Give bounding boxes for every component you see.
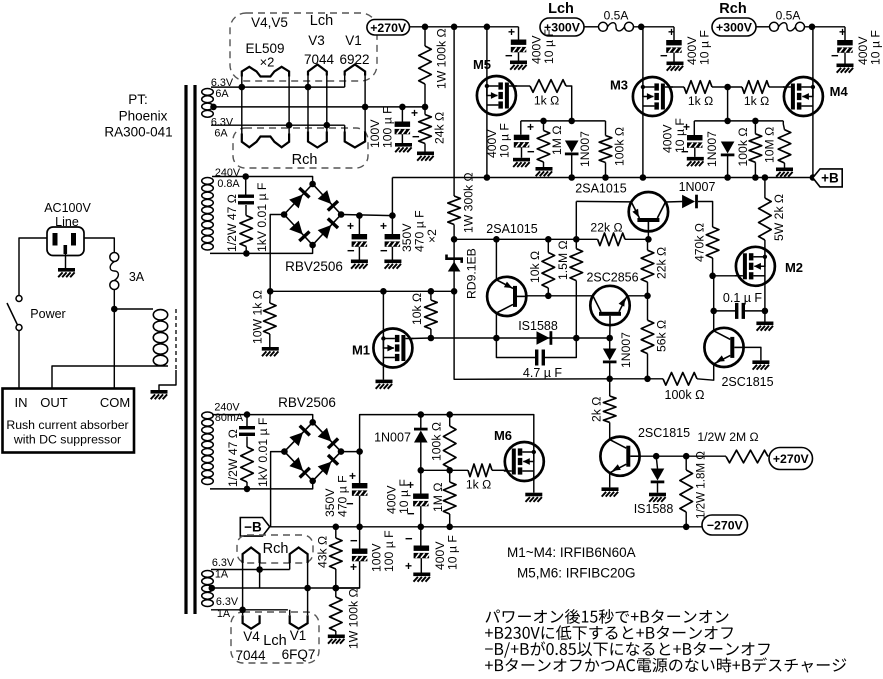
ground M1 xyxy=(376,380,393,389)
wire Rch fuse lead2 xyxy=(804,26,845,28)
capacitor 400V 10uF t1 xyxy=(511,40,527,53)
label +300V Lch xyxy=(540,18,584,36)
bridge RBV2506 +B xyxy=(281,181,345,249)
svg-text:1A: 1A xyxy=(217,608,231,620)
wire cap470b gnd xyxy=(391,247,393,260)
wire snubber mid xyxy=(245,205,247,216)
svg-text:0.8A: 0.8A xyxy=(217,178,240,190)
wire Lch fuse lead1 xyxy=(584,26,599,28)
junction rail M4s xyxy=(810,174,817,181)
ground shield xyxy=(151,390,168,399)
junction heater5 xyxy=(286,122,293,129)
wire 470k bot xyxy=(712,258,714,276)
wire cape lead xyxy=(420,527,422,546)
resistor 43kOhm xyxy=(330,538,343,569)
svg-text:6FQ7: 6FQ7 xyxy=(282,647,316,662)
capacitor 400V 10uF M3 xyxy=(687,135,703,148)
wire primary bottom xyxy=(52,366,168,391)
svg-text:1k Ω: 1k Ω xyxy=(466,478,491,492)
transistor 2SC1815 Q5 xyxy=(600,437,639,476)
junction cap470 a xyxy=(356,212,363,219)
heater V4Rch upper xyxy=(243,548,260,564)
svg-text:RD9.1EB: RD9.1EB xyxy=(464,248,478,299)
capacitor 400V 10uF t2 xyxy=(666,40,682,53)
diode 1N007 M3 xyxy=(721,142,735,157)
wire Q5 emitter xyxy=(609,473,611,488)
svg-text:1A: 1A xyxy=(215,569,229,581)
wire cape lead2 xyxy=(420,558,422,572)
wire heater b line2 xyxy=(212,587,360,589)
wire switch to IN xyxy=(18,331,20,392)
diode 1N007 mid xyxy=(603,349,617,364)
capacitor 350V 470uF c xyxy=(352,483,368,496)
junction 300k line top xyxy=(451,24,458,31)
transistor 2SA1015 Q2 xyxy=(629,192,668,231)
capacitor 1kV 0.01uF xyxy=(238,195,254,205)
label +300V Rch xyxy=(712,18,756,36)
resistor 1W 300kOhm xyxy=(448,196,461,225)
wire Q1 emitter xyxy=(495,239,497,280)
svg-text:1W 100k Ω: 1W 100k Ω xyxy=(346,588,360,649)
svg-text:V4,V5: V4,V5 xyxy=(251,15,288,30)
wire 10M gnd lead xyxy=(784,163,786,168)
ground M6 xyxy=(525,493,542,502)
svg-text:−: − xyxy=(831,48,839,63)
junction gates mid xyxy=(724,84,731,91)
svg-text:1N007: 1N007 xyxy=(705,131,719,167)
MOSFET M6 xyxy=(504,442,544,481)
wire M3 gate lead xyxy=(670,86,684,88)
wire cap t1 lead xyxy=(518,27,520,40)
wire fuse to junction xyxy=(113,289,115,391)
wire +B riser xyxy=(391,178,393,216)
svg-text:1k Ω: 1k Ω xyxy=(688,94,713,108)
svg-text:M2: M2 xyxy=(785,260,803,275)
junction M5 drain top xyxy=(484,24,491,31)
junction -B plus xyxy=(356,448,363,455)
wire 1.8M bot xyxy=(685,512,687,527)
label +270V xyxy=(367,20,410,36)
junction 2k top xyxy=(606,376,613,383)
junction heater2 xyxy=(305,84,312,91)
wire cap t1 gnd xyxy=(518,52,520,60)
ground 24k xyxy=(417,152,434,161)
wire 43k bot xyxy=(335,569,337,588)
junction Q3-22k xyxy=(644,293,651,300)
wire 1N007 mid leads xyxy=(609,338,611,349)
junction cap 100uF xyxy=(399,104,406,111)
svg-text:3A: 3A xyxy=(129,270,145,284)
wire M3 source xyxy=(642,116,644,178)
svg-text:1kV 0.01 µ F: 1kV 0.01 µ F xyxy=(256,418,270,487)
transformer core lines xyxy=(186,85,195,614)
ground Q5 xyxy=(602,487,619,496)
heater leg f xyxy=(364,75,366,136)
wire heater line3 xyxy=(211,124,345,126)
svg-text:+: + xyxy=(508,25,515,39)
wire -B bridge right out xyxy=(341,451,360,453)
svg-text:2SA1015: 2SA1015 xyxy=(575,182,626,196)
svg-text:2SC1815: 2SC1815 xyxy=(638,426,690,440)
svg-text:−: − xyxy=(660,48,668,63)
ground M2 xyxy=(756,322,773,331)
heater V3 lower Rch xyxy=(308,132,327,148)
wire 100k-24k link xyxy=(424,84,426,107)
wire M5 drain xyxy=(486,27,488,76)
wire 1.8M top xyxy=(685,456,687,470)
junction node M3-100k xyxy=(752,118,759,125)
wire heater line2 xyxy=(214,106,426,108)
svg-text:10 µ F: 10 µ F xyxy=(542,29,556,64)
wire M4 source xyxy=(812,116,814,178)
wire 10kM1 top xyxy=(430,291,432,300)
svg-text:0.1 µ F: 0.1 µ F xyxy=(723,291,763,305)
svg-text:Rch: Rch xyxy=(719,1,746,17)
junction gate line b xyxy=(446,467,453,474)
ground cap M5 xyxy=(513,158,530,167)
wire cap M5 gnd xyxy=(521,148,523,158)
junction n239 d xyxy=(645,236,652,243)
svg-text:Rch: Rch xyxy=(263,541,289,557)
wire -B snubber mid xyxy=(246,437,248,448)
svg-text:M5,M6: IRFIBC20G: M5,M6: IRFIBC20G xyxy=(517,566,636,581)
wire 1N007b leads xyxy=(420,415,422,429)
wire 100k2 gnd xyxy=(335,631,337,635)
svg-text:IS1588: IS1588 xyxy=(518,319,558,333)
resistor 22kOhm v xyxy=(641,250,654,282)
svg-text:+: + xyxy=(347,219,354,233)
svg-text:×2: ×2 xyxy=(425,229,439,243)
wire heater line1 xyxy=(211,86,345,88)
wire cap M3 gnd xyxy=(694,148,696,157)
wire snubber xyxy=(245,177,247,196)
wire cap 100uF gnd lead xyxy=(401,134,403,143)
svg-text:OUT: OUT xyxy=(40,395,68,410)
wire gate line xyxy=(421,469,468,471)
wire Q5 base line xyxy=(640,455,726,457)
heater b leg d xyxy=(307,563,309,615)
svg-text:−: − xyxy=(505,48,513,63)
junction rail cap100 xyxy=(356,524,363,531)
svg-text:×2: ×2 xyxy=(260,55,275,70)
svg-text:43k Ω: 43k Ω xyxy=(315,536,329,568)
heater V1 upper xyxy=(345,65,365,76)
wire 100kb top lead xyxy=(449,415,451,426)
wire 5W2k bot xyxy=(764,240,766,247)
svg-text:80mA: 80mA xyxy=(215,412,244,424)
wire 100k M3 top lead xyxy=(754,121,756,134)
svg-text:M3: M3 xyxy=(610,78,628,93)
wire M5 node line xyxy=(521,120,606,122)
transistor 2SC2856 Q3 xyxy=(590,286,629,325)
junction gate line a xyxy=(418,467,425,474)
wire 10k mid bot xyxy=(547,288,549,296)
wire 100k2 leads xyxy=(335,588,337,597)
svg-text:Lch: Lch xyxy=(548,1,574,17)
junction 100kb top xyxy=(446,411,453,418)
AC plug P1 xyxy=(47,227,84,256)
wire cap t3 gnd xyxy=(844,53,846,64)
heater winding 6.3V top xyxy=(202,89,214,118)
wire 1N007 mid lead2 xyxy=(609,363,611,379)
svg-text:2SC1815: 2SC1815 xyxy=(721,375,773,389)
svg-text:IS1588: IS1588 xyxy=(634,502,674,516)
svg-text:+: + xyxy=(405,559,412,573)
diode 1N007 q2 xyxy=(682,195,698,209)
capacitor 100V 100uF -B xyxy=(352,549,368,562)
wire capd lead xyxy=(420,470,422,493)
wire Q1 base line xyxy=(526,295,593,297)
wire plug ground lead xyxy=(65,254,67,268)
svg-text:100k Ω: 100k Ω xyxy=(612,127,626,166)
wire +270V rail xyxy=(410,26,519,28)
diode 1N007 M5 xyxy=(565,141,579,156)
resistor 1kOhm M4 xyxy=(742,81,769,94)
heater V3 upper xyxy=(308,65,327,76)
wire 1k M3 to mid xyxy=(712,86,742,88)
svg-text:1N007: 1N007 xyxy=(374,431,411,445)
svg-text:V1: V1 xyxy=(290,628,307,643)
svg-text:Power: Power xyxy=(30,307,65,321)
wire 10kM1 bot xyxy=(430,329,432,338)
wire IS1588 low lead xyxy=(656,456,657,468)
label +270V low xyxy=(769,448,813,470)
junction 43k-100k xyxy=(333,585,340,592)
wire 2k bot xyxy=(609,422,611,440)
resistor 100kOhm M3 xyxy=(749,134,762,163)
wire M2 gate xyxy=(713,275,737,277)
junction base-1.8M xyxy=(683,453,690,460)
resistor 1kOhm M3 xyxy=(684,81,712,94)
primary winding xyxy=(153,310,167,366)
wire IS1588 low lead2 xyxy=(657,483,659,493)
ground cap470a xyxy=(351,260,368,269)
svg-text:6A: 6A xyxy=(215,88,229,100)
resistor 1W 100kOhm xyxy=(419,46,432,84)
ground 10M xyxy=(776,168,793,177)
wire -B bridge left out xyxy=(271,452,285,527)
heater leg e2 xyxy=(344,125,346,136)
resistor 10kOhm M1 xyxy=(425,300,438,329)
wire 1N007 M3 lead xyxy=(727,156,729,178)
svg-text:−: − xyxy=(350,533,358,548)
junction 1.8M rail xyxy=(683,524,690,531)
junction n239 c xyxy=(573,236,580,243)
wire M5 source xyxy=(486,115,488,178)
wire diode to 470k xyxy=(698,202,713,228)
diode 1N007 -B xyxy=(414,428,428,443)
svg-text:1k Ω: 1k Ω xyxy=(534,94,559,108)
junction node M5-d xyxy=(568,118,575,125)
resistor 1MOhm -B xyxy=(443,482,456,514)
wire 0.1uF line a xyxy=(714,310,736,312)
resistor 1MOhm M5 xyxy=(537,131,550,163)
svg-text:10 µ F: 10 µ F xyxy=(673,118,687,153)
svg-text:10W 1k Ω: 10W 1k Ω xyxy=(250,290,264,344)
junction 56k-100k xyxy=(644,376,651,383)
wire 1M gnd lead xyxy=(543,162,545,167)
svg-text:PT:: PT: xyxy=(128,92,148,107)
wire 100k line xyxy=(610,378,663,380)
winding 6.3V 1A xyxy=(202,571,214,607)
junction hb3 xyxy=(333,585,340,592)
junction hb coil xyxy=(209,585,216,592)
fuse 0.5A Rch xyxy=(770,22,805,31)
wire cap t2 gnd xyxy=(673,53,675,62)
ground IS1588 low xyxy=(649,493,666,502)
svg-text:IN: IN xyxy=(15,395,28,410)
svg-text:Phoenix: Phoenix xyxy=(119,109,168,124)
heater b leg a xyxy=(242,563,244,615)
junction M2gate-q4 xyxy=(710,308,717,315)
wire Q2 base down xyxy=(647,231,649,239)
heater leg a xyxy=(241,75,243,136)
junction hb1 xyxy=(256,566,263,573)
ground cap t3 xyxy=(837,64,854,73)
svg-text:RBV2506: RBV2506 xyxy=(278,395,336,410)
ground 1W100k xyxy=(328,635,345,644)
wire snubber bot lead xyxy=(245,247,247,254)
resistor 1W 100kOhm b xyxy=(330,597,343,631)
junction rail M5s xyxy=(484,174,491,181)
svg-text:V4: V4 xyxy=(243,629,260,644)
junction Lch rail xyxy=(638,24,645,31)
wire 100k upper lead xyxy=(424,27,426,46)
junction heater6 xyxy=(324,122,331,129)
svg-text:1W 100k Ω: 1W 100k Ω xyxy=(434,28,448,89)
wire IS line xyxy=(431,337,610,339)
svg-text:2SA1015: 2SA1015 xyxy=(486,222,537,236)
wire Q3 down lead xyxy=(609,325,611,338)
svg-text:2k Ω: 2k Ω xyxy=(589,397,603,422)
wire cap t3 lead xyxy=(844,27,846,40)
junction base-IS1588 xyxy=(653,453,660,460)
svg-text:10 µ F: 10 µ F xyxy=(397,479,411,514)
wire 300k to node xyxy=(453,225,455,240)
svg-text:1M Ω: 1M Ω xyxy=(550,126,564,155)
ground cap M3 xyxy=(687,157,704,166)
wire 1.5M bot xyxy=(575,281,577,338)
junction -B snub top xyxy=(244,411,251,418)
junction rail 100kM5 xyxy=(602,174,609,181)
svg-text:RA300-041: RA300-041 xyxy=(104,125,172,140)
svg-text:6A: 6A xyxy=(214,128,228,140)
wire 10W1k gnd lead xyxy=(269,334,271,347)
resistor 10kOhm mid xyxy=(542,253,555,289)
wire 1k M6 lead xyxy=(492,469,507,471)
ground 10W1k xyxy=(262,347,279,356)
junction rail M3s xyxy=(640,174,647,181)
svg-text:Lch: Lch xyxy=(310,13,333,29)
svg-text:−: − xyxy=(405,531,413,546)
junction rail 43k xyxy=(333,524,340,531)
capacitor 400V 10uF t3 xyxy=(837,40,853,53)
wire cap M5 lead xyxy=(520,121,522,135)
svg-text:4.7 µ F: 4.7 µ F xyxy=(523,366,563,380)
wire heater b line3 xyxy=(211,609,288,611)
heater b leg b xyxy=(259,563,261,588)
junction rail capd xyxy=(418,524,425,531)
wire 1N007 M5 lead xyxy=(571,155,573,178)
resistor 100kOhm M5 xyxy=(599,136,612,163)
wire -B snubber top xyxy=(246,415,248,426)
MOSFET M2 xyxy=(735,247,775,286)
svg-text:100 µ F: 100 µ F xyxy=(380,106,394,148)
wire 2k top lead xyxy=(609,379,611,396)
capacitor 400V 10uF -Ba xyxy=(413,494,429,507)
wire 1N007b lead2 xyxy=(420,443,422,471)
svg-text:10 µ F: 10 µ F xyxy=(868,30,882,65)
svg-text:+B: +B xyxy=(821,171,839,186)
ground Q4 base xyxy=(752,360,769,369)
diode IS1588 low xyxy=(651,469,665,484)
wire 5W2k top xyxy=(764,178,766,199)
junction rail 1N007M5 xyxy=(568,174,575,181)
svg-text:470 µ F: 470 µ F xyxy=(335,475,349,517)
wire 1Mb top xyxy=(449,470,451,482)
junction 470k-M2gate xyxy=(709,273,716,280)
wire mid gates down xyxy=(727,87,729,121)
wire Rch fuse lead1 xyxy=(756,26,770,28)
svg-text:+300V: +300V xyxy=(716,21,753,35)
svg-text:1/2W 47 Ω: 1/2W 47 Ω xyxy=(225,194,239,252)
ground 1M M5 xyxy=(536,167,553,176)
svg-text:RBV2506: RBV2506 xyxy=(285,259,343,274)
wire Q2 right lead xyxy=(666,201,683,204)
resistor 10W 1kOhm xyxy=(264,303,277,334)
wire node line 239b xyxy=(625,238,648,240)
wire M1 gate line xyxy=(411,337,431,340)
wire M3 node line xyxy=(694,120,783,122)
wire 1.5M top xyxy=(575,239,577,248)
svg-text:1kV 0.01 µ F: 1kV 0.01 µ F xyxy=(255,183,269,252)
wire zener down xyxy=(454,291,610,379)
svg-text:24k Ω: 24k Ω xyxy=(432,112,446,144)
dashed box Lch bottom xyxy=(231,612,319,663)
resistor 1kOhm M6 xyxy=(468,464,492,477)
fuse 0.5A Lch xyxy=(599,22,634,31)
heater leg b xyxy=(288,75,290,136)
svg-text:1W 300k Ω: 1W 300k Ω xyxy=(461,172,475,233)
wire 22kv bot xyxy=(647,282,649,296)
svg-text:10k Ω: 10k Ω xyxy=(410,293,424,325)
svg-text:10 µ F: 10 µ F xyxy=(497,123,511,158)
ground cap t1 xyxy=(510,61,527,70)
wire +B rail xyxy=(392,177,812,179)
heater V1Rch upper xyxy=(290,548,308,564)
resistor 100kOhm h xyxy=(663,373,697,386)
wire plug left xyxy=(19,238,47,295)
wire cap100 lead xyxy=(359,527,361,549)
junction 1N007b top xyxy=(418,411,425,418)
junction node M3-d xyxy=(724,118,731,125)
junction cap470 b xyxy=(389,212,396,219)
heater EL509 lower Rch xyxy=(242,134,289,148)
wire -B cap470 lead2 xyxy=(359,496,361,527)
svg-text:V1: V1 xyxy=(345,33,362,48)
wire 0V line xyxy=(270,290,454,292)
svg-text:V3: V3 xyxy=(308,33,325,48)
wire cap470b lead xyxy=(391,216,393,234)
svg-text:+270V: +270V xyxy=(773,452,810,466)
svg-text:−270V: −270V xyxy=(707,519,744,533)
wire 1k M4 to M4 xyxy=(769,86,785,88)
svg-text:6.3V: 6.3V xyxy=(212,557,235,569)
wire 56k top xyxy=(647,296,649,320)
resistor 56kOhm xyxy=(641,320,654,353)
svg-text:M4: M4 xyxy=(830,84,849,99)
wire 22kv top xyxy=(647,239,649,250)
